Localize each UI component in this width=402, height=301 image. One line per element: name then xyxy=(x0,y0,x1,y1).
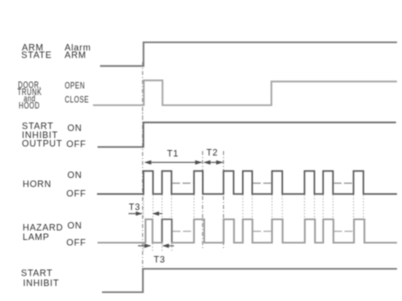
svg-text:ON: ON xyxy=(67,170,82,180)
svg-text:CLOSE: CLOSE xyxy=(65,94,89,104)
svg-text:OPEN: OPEN xyxy=(65,81,85,91)
svg-text:T2: T2 xyxy=(206,148,218,158)
wire HORN continuation dash 2 xyxy=(253,182,272,184)
node T1-end dash-dot vertical at x=202.6 xyxy=(202,151,204,248)
svg-text:ARM: ARM xyxy=(65,50,87,60)
svg-text:T3: T3 xyxy=(129,202,141,212)
svg-text:ON: ON xyxy=(67,123,82,133)
wire HAZARD continuation dash 1 xyxy=(173,230,194,232)
svg-text:T1: T1 xyxy=(167,149,179,159)
svg-text:ON: ON xyxy=(67,221,82,231)
svg-text:OUTPUT: OUTPUT xyxy=(22,139,63,149)
wire HORN continuation dash 3 xyxy=(334,182,354,184)
wire HORN continuation dash 1 xyxy=(172,182,194,184)
wire T2 dimension arrow xyxy=(204,161,223,163)
svg-text:OFF: OFF xyxy=(66,237,86,247)
svg-text:OFF: OFF xyxy=(66,139,86,149)
svg-text:LAMP: LAMP xyxy=(23,232,50,242)
wire ARM STATE waveform xyxy=(100,42,397,66)
wire HAZARD continuation dash 3 xyxy=(334,230,354,232)
svg-text:STATE: STATE xyxy=(21,50,52,60)
svg-text:OFF: OFF xyxy=(66,189,86,199)
svg-text:T3: T3 xyxy=(154,255,166,265)
svg-text:HOOD: HOOD xyxy=(19,100,40,110)
node dotted alignment verticals between horn and hazard rows xyxy=(144,195,364,218)
wire T3 upper arrows xyxy=(129,213,142,215)
wire DOOR,TRUNK,HOOD waveform xyxy=(93,80,397,105)
wire START INHIBIT OUTPUT waveform xyxy=(98,122,397,147)
label DOOR TRUNK and HOOD xyxy=(17,80,42,111)
node dotted stub above row3 rise xyxy=(142,112,144,121)
wire HORN waveform xyxy=(97,171,397,194)
label OPEN CLOSE xyxy=(65,81,89,105)
wire T3 lower arrows xyxy=(138,245,150,247)
node T2-end dash-dot vertical at x=223.5 xyxy=(223,151,225,248)
svg-text:INHIBIT: INHIBIT xyxy=(23,278,59,288)
wire HAZARD continuation dash 2 xyxy=(253,230,272,232)
svg-text:HORN: HORN xyxy=(23,179,52,189)
node ARM-event dash-dot vertical at x=142.6 xyxy=(142,62,144,290)
svg-text:START: START xyxy=(21,268,53,278)
wire START INHIBIT waveform xyxy=(102,269,397,292)
wire HAZARD LAMP waveform xyxy=(98,219,398,242)
wire T1 dimension arrow xyxy=(145,161,202,163)
wire HAZARD pulse H2 darker overdraw xyxy=(162,219,172,242)
node dotted stubs below hazard baseline near T3 xyxy=(144,244,172,253)
